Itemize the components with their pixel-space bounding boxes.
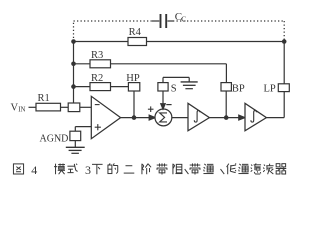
svg-text:HP: HP	[126, 73, 140, 84]
svg-text:R3: R3	[91, 50, 103, 61]
svg-text:BP: BP	[232, 83, 245, 94]
svg-text:R1: R1	[38, 93, 50, 104]
svg-text:R2: R2	[91, 73, 103, 84]
svg-text:S: S	[171, 84, 177, 95]
svg-text:R4: R4	[129, 27, 142, 38]
svg-text:4: 4	[31, 163, 37, 177]
svg-text:AGND: AGND	[40, 134, 69, 145]
svg-text:LP: LP	[264, 84, 276, 95]
svg-text:3: 3	[85, 163, 91, 177]
svg-text:IN: IN	[18, 107, 25, 114]
svg-text:C: C	[181, 15, 186, 24]
